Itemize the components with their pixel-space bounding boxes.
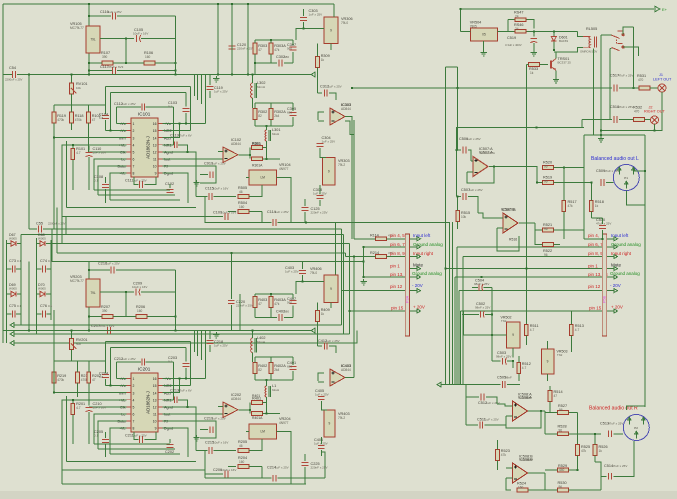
wire	[535, 223, 537, 245]
resistor R403A	[269, 297, 273, 308]
wire pin1	[116, 378, 126, 380]
svg-text:1: 1	[133, 122, 135, 126]
terminal gnd in	[10, 341, 14, 346]
wire rail	[54, 104, 106, 106]
capacitor C505	[502, 381, 505, 388]
wire long vertical to IC403	[353, 257, 355, 378]
wire	[654, 124, 656, 131]
svg-text:1uF x 25V: 1uF x 25V	[469, 188, 483, 192]
wire pin1	[116, 123, 126, 125]
wire	[7, 293, 11, 295]
wire	[51, 229, 53, 262]
wire	[533, 43, 535, 50]
resistor R511	[525, 325, 529, 336]
svg-text:98nF x 25V: 98nF x 25V	[474, 282, 489, 286]
wire dot1 up	[623, 27, 633, 35]
svg-text:96: 96	[559, 429, 563, 433]
svg-text:1: 1	[133, 377, 135, 381]
wire	[239, 294, 241, 331]
terminal pin12	[417, 289, 420, 293]
svg-text:Agnd: Agnd	[164, 150, 173, 154]
capacitor C504	[479, 284, 483, 291]
wire	[292, 103, 294, 111]
capacitor C73	[12, 266, 15, 273]
resistor R512	[517, 363, 521, 374]
svg-text:680: 680	[287, 111, 292, 115]
wire	[7, 243, 11, 245]
wire	[292, 52, 294, 63]
wire	[270, 308, 272, 318]
wire pin7 data	[98, 166, 127, 195]
wire	[125, 292, 127, 317]
wire	[116, 269, 176, 271]
wire	[564, 167, 584, 169]
svg-text:14: 14	[153, 136, 157, 140]
svg-text:6.8: 6.8	[99, 375, 104, 379]
wire	[465, 387, 467, 398]
wire coil top	[578, 31, 584, 36]
capacitor C302	[279, 60, 282, 67]
wire	[317, 322, 319, 347]
wire	[462, 311, 464, 335]
wire	[607, 276, 614, 278]
svg-text:C54: C54	[9, 66, 16, 70]
terminal E+	[655, 6, 660, 11]
wire	[117, 15, 176, 17]
resistor R523	[496, 450, 500, 461]
wire	[292, 357, 294, 365]
svg-text:NR1: NR1	[164, 398, 172, 402]
wire corner to VR406	[334, 223, 336, 276]
wire	[525, 336, 527, 346]
svg-text:10uF x 16V: 10uF x 16V	[213, 441, 228, 445]
capacitor C212	[142, 359, 145, 366]
svg-text:390: 390	[102, 55, 108, 59]
wire	[330, 303, 332, 309]
resistor R402A	[269, 363, 273, 374]
capacitor C219	[210, 426, 213, 433]
svg-text:79L: 79L	[90, 291, 96, 295]
wire	[209, 345, 211, 352]
wire	[209, 75, 211, 86]
wire	[506, 467, 513, 469]
wire	[569, 412, 578, 414]
svg-text:4N977: 4N977	[279, 421, 289, 425]
svg-text:46: 46	[239, 444, 243, 448]
wire	[270, 120, 272, 127]
svg-text:Input right: Input right	[413, 251, 434, 256]
wire	[410, 256, 417, 258]
wire	[304, 467, 306, 484]
capacitor C209	[136, 289, 140, 296]
diode D70	[40, 291, 45, 296]
wire	[526, 64, 528, 66]
wire	[461, 310, 603, 312]
wire	[594, 434, 596, 445]
svg-text:9: 9	[512, 333, 514, 337]
wire Agnd	[163, 407, 197, 451]
svg-text:RIGHT OUT: RIGHT OUT	[644, 110, 665, 114]
wire	[277, 432, 292, 484]
wire	[6, 320, 8, 343]
capacitor C401	[290, 367, 297, 370]
terminal pin15	[417, 309, 420, 313]
svg-text:1uF x 25V: 1uF x 25V	[108, 10, 122, 14]
wire	[94, 189, 170, 191]
capacitor C213	[174, 396, 177, 403]
wire to C518	[609, 48, 611, 119]
wire	[507, 20, 509, 32]
wire	[173, 107, 175, 145]
wire	[89, 316, 102, 318]
svg-text:MC79L77: MC79L77	[70, 26, 84, 30]
wire	[110, 199, 180, 201]
capacitor C509	[601, 179, 604, 186]
wire	[249, 403, 251, 414]
svg-text:0.1: 0.1	[94, 434, 99, 438]
wire	[185, 113, 187, 124]
svg-text:47uF x 6V: 47uF x 6V	[178, 134, 192, 138]
wire	[65, 216, 67, 235]
DAC IC201	[117, 373, 173, 432]
svg-text:4.7: 4.7	[522, 366, 527, 370]
svg-text:trim: trim	[119, 136, 125, 140]
wire	[88, 383, 90, 406]
wire left border	[2, 4, 4, 343]
svg-text:P2: P2	[634, 426, 638, 430]
svg-text:pin 12: pin 12	[588, 284, 601, 289]
svg-text:96: 96	[544, 227, 548, 231]
svg-text:10uF x 16V: 10uF x 16V	[221, 468, 236, 472]
svg-text:96: 96	[544, 253, 548, 257]
op-amp IC508:B	[513, 463, 528, 483]
resistor R522	[543, 243, 554, 247]
wire right collector	[175, 16, 177, 75]
wire	[196, 450, 208, 452]
svg-text:47k: 47k	[274, 302, 280, 306]
capacitor C204	[102, 375, 109, 378]
svg-text:98nF x 25V: 98nF x 25V	[475, 306, 490, 310]
wire	[584, 238, 603, 240]
wire	[146, 361, 174, 363]
wire	[342, 290, 406, 292]
wire	[304, 454, 306, 461]
wire	[7, 268, 12, 270]
svg-text:1uF x 25V: 1uF x 25V	[275, 466, 289, 470]
svg-text:3: 3	[133, 391, 135, 395]
svg-text:62mH: 62mH	[257, 85, 265, 89]
diode D69	[11, 291, 16, 296]
svg-text:1uF x 25V: 1uF x 25V	[322, 140, 336, 144]
wire feedback	[506, 411, 541, 428]
wire	[491, 288, 493, 362]
svg-text:AD844: AD844	[341, 107, 351, 111]
svg-text:AD1862N-J: AD1862N-J	[146, 136, 151, 159]
wire	[619, 87, 639, 89]
resistor RS47	[515, 18, 526, 22]
svg-text:1uF x 16V: 1uF x 16V	[93, 406, 107, 410]
wire	[554, 182, 592, 184]
svg-text:+ 20V: + 20V	[413, 304, 425, 309]
svg-text:3: 3	[133, 136, 135, 140]
svg-text:IC201: IC201	[138, 367, 151, 372]
wire pin4	[62, 145, 127, 217]
wire	[105, 105, 107, 114]
wire top-right rail	[461, 8, 654, 10]
wire	[37, 268, 42, 270]
resistor R532	[634, 118, 645, 122]
svg-text:IC101: IC101	[138, 112, 151, 117]
svg-text:0.1: 0.1	[168, 360, 173, 364]
regulator VR306	[324, 17, 338, 44]
wire	[246, 177, 249, 179]
wire pin8	[110, 428, 127, 454]
wire	[277, 477, 325, 479]
wire	[583, 167, 585, 169]
svg-text:1uF x 25V: 1uF x 25V	[214, 90, 228, 94]
svg-text:pin 6, 7: pin 6, 7	[390, 242, 405, 247]
wire	[53, 138, 55, 229]
resistor R409	[316, 311, 320, 322]
wire out	[528, 472, 545, 474]
wire	[254, 103, 256, 109]
wire	[320, 437, 322, 444]
wire	[228, 466, 236, 468]
svg-text:MC79L77: MC79L77	[70, 279, 84, 283]
svg-text:47: 47	[258, 48, 262, 52]
wire	[115, 362, 117, 379]
svg-text:P1: P1	[624, 176, 628, 180]
svg-text:IC403: IC403	[341, 364, 351, 368]
resistor R519	[543, 181, 554, 185]
svg-text:trim: trim	[119, 391, 125, 395]
svg-text:0.1: 0.1	[168, 105, 173, 109]
wire	[71, 123, 73, 130]
resistor R401	[252, 401, 263, 405]
wire	[506, 478, 511, 490]
svg-text:pin 15: pin 15	[589, 305, 602, 310]
capacitor C113	[174, 141, 177, 148]
wire	[246, 431, 249, 433]
capacitor C307	[290, 47, 297, 50]
resistor R513	[570, 325, 574, 336]
svg-text:0.1: 0.1	[94, 179, 99, 183]
wire rail	[6, 240, 8, 320]
resistor R533	[529, 63, 540, 67]
resistor R301A	[252, 157, 263, 161]
wire	[319, 200, 321, 206]
svg-text:47: 47	[554, 394, 558, 398]
wire	[217, 4, 219, 75]
wire bus3	[51, 243, 350, 245]
svg-text:680: 680	[287, 365, 292, 369]
regulator VR203	[86, 279, 100, 307]
svg-text:9: 9	[547, 360, 549, 364]
wire	[105, 361, 107, 373]
wire	[302, 275, 304, 282]
svg-text:C75: C75	[9, 304, 16, 308]
wire -in	[218, 151, 223, 153]
svg-text:OMRON 5.3V: OMRON 5.3V	[580, 50, 597, 54]
wire	[185, 348, 187, 362]
wire mute vertical	[444, 67, 446, 385]
wire	[205, 477, 272, 479]
capacitor C308	[317, 196, 324, 199]
resistor R302	[253, 109, 257, 120]
regulator VR403	[324, 410, 335, 437]
svg-text:0.1: 0.1	[48, 304, 53, 308]
svg-text:10uF x 16V: 10uF x 16V	[213, 187, 228, 191]
wire	[113, 62, 144, 64]
svg-text:79L2: 79L2	[338, 163, 345, 167]
wire mute jog	[445, 66, 457, 68]
op-amp IC507:B	[503, 213, 518, 233]
capacitor C75	[12, 311, 15, 318]
svg-text:Mute: Mute	[611, 262, 622, 267]
svg-text:1uF x 25V: 1uF x 25V	[485, 418, 499, 422]
capacitor C511	[480, 422, 483, 429]
svg-text:R401: R401	[252, 394, 260, 398]
svg-text:pin 4,: pin 4,	[588, 233, 599, 238]
wire	[601, 476, 607, 490]
wire IC303 out down to pin4 row	[345, 117, 352, 239]
wire	[554, 229, 584, 231]
wire	[527, 20, 534, 29]
wire	[569, 433, 602, 435]
wire	[2, 325, 4, 343]
svg-text:47uF x 25V: 47uF x 25V	[604, 169, 619, 173]
svg-text:220nF x 25V: 220nF x 25V	[236, 304, 253, 308]
wire	[263, 158, 281, 160]
svg-text:6: 6	[133, 158, 135, 162]
wire feedback b	[497, 228, 519, 251]
svg-text:3.3uF x 400V: 3.3uF x 400V	[505, 43, 522, 47]
svg-text:C202: C202	[165, 450, 174, 454]
wire	[512, 348, 514, 358]
wire	[252, 331, 254, 339]
connector J2	[651, 116, 659, 124]
svg-text:1uF x 25V: 1uF x 25V	[275, 210, 289, 214]
wire	[292, 306, 294, 318]
svg-text:47k: 47k	[568, 204, 574, 208]
ground balanced L	[598, 136, 604, 142]
terminal	[614, 309, 617, 313]
wire	[537, 182, 543, 184]
capacitor C109	[225, 213, 228, 220]
svg-text:10k: 10k	[461, 215, 467, 219]
wire	[498, 30, 508, 32]
wire	[457, 67, 459, 88]
wire	[303, 281, 325, 283]
wire	[16, 313, 21, 315]
wire	[205, 217, 206, 223]
svg-text:W005: W005	[9, 287, 17, 291]
wire	[98, 194, 175, 196]
wire relay top rail	[527, 30, 578, 32]
svg-text:220nF x 25V: 220nF x 25V	[311, 466, 328, 470]
wire	[317, 44, 319, 57]
terminal -20V in	[10, 323, 14, 328]
wire	[296, 282, 303, 295]
svg-text:15: 15	[153, 129, 157, 133]
wire out	[519, 222, 535, 224]
capacitor C102	[167, 190, 174, 193]
wire	[169, 184, 171, 188]
wire	[645, 119, 651, 121]
wire	[47, 313, 52, 315]
capacitor C125	[302, 208, 309, 211]
wire inner line ch1b	[277, 222, 449, 224]
terminal power rail left 2	[311, 328, 315, 333]
svg-text:5: 5	[133, 150, 135, 154]
wire	[105, 379, 107, 386]
wire pin2	[106, 385, 127, 387]
wire	[134, 177, 139, 185]
wire	[190, 86, 192, 130]
svg-text:pin 12: pin 12	[390, 284, 403, 289]
capacitor C112	[142, 104, 145, 111]
svg-text:R301: R301	[252, 142, 260, 146]
wire lower nest	[62, 216, 205, 218]
wire	[321, 401, 327, 410]
wire	[185, 93, 187, 107]
wire	[72, 415, 74, 445]
wire pivot1	[601, 34, 611, 36]
wire	[77, 383, 79, 397]
wire	[460, 9, 462, 31]
wire	[410, 238, 417, 240]
capacitor C514	[609, 473, 612, 480]
wire	[457, 222, 459, 230]
inductor L1	[265, 386, 270, 397]
resistor R518	[590, 201, 594, 212]
wire	[254, 308, 256, 318]
svg-text:50k: 50k	[76, 342, 81, 346]
wire mute drop	[525, 65, 527, 325]
svg-text:47: 47	[258, 302, 262, 306]
wire to J1 row	[632, 27, 634, 88]
wire	[155, 62, 176, 64]
svg-text:LM: LM	[261, 176, 266, 180]
svg-text:W005: W005	[38, 287, 46, 291]
resistor R514	[548, 391, 552, 402]
svg-text:-Vs: -Vs	[120, 122, 126, 126]
capacitor C111	[140, 181, 143, 188]
svg-text:1uF x 25V: 1uF x 25V	[214, 344, 228, 348]
regulator VR406	[324, 275, 338, 303]
svg-text:160: 160	[239, 205, 245, 209]
svg-text:R516: R516	[509, 238, 517, 242]
svg-text:1k: 1k	[530, 71, 534, 75]
svg-text:pin 6, 7: pin 6, 7	[588, 242, 603, 247]
wire	[317, 303, 319, 311]
wire	[141, 291, 176, 293]
wire ADJ row	[163, 379, 180, 393]
svg-text:470: 470	[634, 110, 640, 114]
capacitor C104	[102, 116, 109, 119]
svg-text:05: 05	[482, 33, 486, 37]
resistor R504	[238, 210, 249, 214]
svg-text:4N977: 4N977	[279, 167, 289, 171]
wire comb	[454, 277, 456, 385]
wire	[506, 415, 513, 417]
svg-text:11: 11	[153, 413, 157, 417]
capacitor C119	[207, 87, 214, 90]
wire	[113, 316, 136, 318]
wire main bus	[17, 74, 311, 76]
wire	[53, 361, 55, 372]
svg-text:1k: 1k	[595, 204, 599, 208]
